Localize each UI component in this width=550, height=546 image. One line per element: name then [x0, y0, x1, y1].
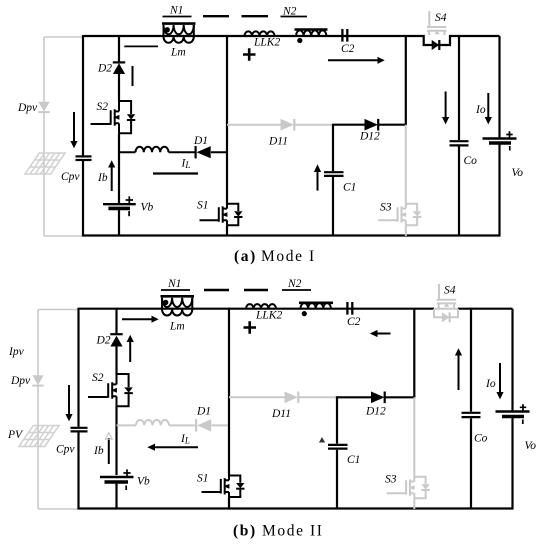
- svg-text:C2: C2: [347, 316, 361, 328]
- svg-text:Mode II: Mode II: [262, 523, 324, 540]
- label N2 with underline: [281, 5, 308, 17]
- svg-text:Co: Co: [474, 433, 488, 445]
- svg-text:C1: C1: [347, 454, 360, 466]
- plus polarity mark: [244, 321, 257, 333]
- arrow down (Cpv current): [65, 385, 72, 421]
- svg-text:Cpv: Cpv: [61, 171, 80, 183]
- transformer core dashes: [204, 289, 268, 291]
- diode Dpv: [32, 375, 43, 385]
- wire gray S3 branch: [413, 397, 415, 509]
- wire gray D11 row: [227, 124, 333, 126]
- svg-text:S1: S1: [197, 200, 209, 212]
- wire Co rail: [470, 308, 472, 509]
- wire battery branch rail: [115, 309, 117, 510]
- plus polarity mark: [243, 48, 256, 60]
- arrow up (Co current): [455, 348, 462, 390]
- diode D11 (gray): [285, 392, 299, 404]
- arrow up Ib (gray head): [105, 433, 112, 464]
- diode D12: [365, 119, 379, 131]
- transformer N2 core bar: [295, 28, 328, 31]
- battery Vo: [496, 404, 530, 424]
- wire bottom rail: [78, 507, 514, 509]
- polarity dot N1: [163, 300, 168, 305]
- capacitor Cpv: [76, 156, 92, 160]
- wire D12 branch rail: [413, 309, 415, 398]
- transistor S2 with body diode: [91, 101, 136, 133]
- capacitor Co: [450, 141, 469, 145]
- svg-text:Vb: Vb: [141, 202, 154, 214]
- transistor S1 with body diode: [200, 204, 243, 225]
- svg-text:(a): (a): [234, 248, 257, 265]
- inductor LLK2: [246, 304, 276, 309]
- svg-text:Cpv: Cpv: [56, 444, 75, 456]
- arrow down (Cpv current): [70, 112, 77, 148]
- svg-text:C2: C2: [341, 43, 355, 55]
- wire black D12 row: [333, 124, 407, 126]
- inductor LLK2: [245, 31, 275, 36]
- svg-text:Dpv: Dpv: [10, 375, 31, 387]
- capacitor C2: [347, 302, 352, 315]
- polarity dot N2: [297, 38, 302, 43]
- line under wire (leakage path, idle): [124, 45, 158, 47]
- svg-text:D12: D12: [359, 131, 380, 143]
- svg-text:Ipv: Ipv: [8, 346, 25, 358]
- svg-text:LLK2: LLK2: [255, 310, 282, 322]
- polarity dot N1: [165, 27, 170, 32]
- svg-text:IL: IL: [180, 433, 190, 446]
- wire right rail: [498, 36, 500, 236]
- svg-text:S4: S4: [435, 12, 447, 24]
- diode D12: [371, 392, 385, 404]
- wire black D12 row: [337, 396, 415, 398]
- caption (b) Mode II: [233, 523, 324, 540]
- transformer core dashes: [203, 15, 268, 17]
- label IL with underline: [153, 158, 198, 174]
- wire inductor row: [119, 151, 227, 153]
- svg-text:D12: D12: [365, 406, 386, 418]
- svg-text:Ib: Ib: [93, 445, 104, 457]
- wire center rail: [226, 35, 228, 237]
- solar panel PV: [25, 153, 65, 174]
- transformer winding N2: [301, 303, 331, 309]
- capacitor Cpv: [71, 428, 88, 432]
- wire gray S4 channel path: [434, 308, 458, 310]
- diode D2: [113, 62, 125, 74]
- svg-text:D2: D2: [97, 63, 112, 75]
- svg-text:Io: Io: [475, 104, 486, 116]
- wire gray PV input loop: [38, 310, 78, 510]
- svg-text:S3: S3: [380, 202, 392, 214]
- arrow left IL: [147, 444, 198, 451]
- svg-text:D1: D1: [196, 406, 211, 418]
- polarity dot N2: [302, 311, 307, 316]
- solar panel PV: [19, 426, 59, 447]
- svg-text:N2: N2: [282, 5, 297, 17]
- wire battery branch rail: [118, 36, 120, 237]
- svg-text:Dpv: Dpv: [17, 102, 38, 114]
- battery Vb: [103, 196, 136, 216]
- label N1 with underline: [163, 5, 192, 17]
- svg-text:S1: S1: [197, 473, 209, 485]
- diode D2: [110, 334, 122, 346]
- wire center rail: [228, 308, 230, 510]
- inductor L: [136, 147, 169, 152]
- caption (a) Mode I: [234, 248, 316, 265]
- transistor S2 with body diode: [88, 374, 133, 406]
- transformer winding N1: [162, 298, 192, 309]
- svg-text:N1: N1: [167, 278, 181, 290]
- svg-text:Lm: Lm: [169, 321, 185, 333]
- transistor S1 with body diode: [202, 476, 245, 498]
- current line beside D2 (mode I idle): [132, 66, 134, 86]
- inductor Lm (magnetizing): [164, 37, 194, 43]
- inductor L (gray): [136, 420, 169, 425]
- arrow up Ib: [108, 160, 115, 191]
- svg-text:PV: PV: [7, 429, 24, 441]
- arrow down Io: [496, 363, 503, 399]
- svg-text:Co: Co: [464, 155, 478, 167]
- transformer N2 core bar: [299, 301, 333, 304]
- wire gray S4 diode dip: [434, 309, 458, 318]
- capacitor Co: [462, 413, 481, 417]
- transformer N1 core bar: [161, 295, 195, 298]
- svg-text:Vb: Vb: [137, 476, 150, 488]
- svg-text:D2: D2: [96, 335, 111, 347]
- transistor S3 (gray, off): [387, 477, 430, 498]
- svg-text:Ib: Ib: [97, 172, 108, 184]
- wire left rail: [77, 308, 79, 510]
- wire gray S3 branch: [405, 125, 407, 236]
- transistor S3 (gray, off): [378, 204, 421, 225]
- svg-text:Io: Io: [485, 378, 496, 390]
- svg-text:Lm: Lm: [170, 47, 186, 59]
- arrow left (C2 current): [370, 330, 391, 337]
- wire bottom rail: [82, 234, 501, 236]
- wire gray inductor row: [117, 424, 230, 426]
- wire black outer top rail: [79, 308, 513, 310]
- svg-text:Vo: Vo: [525, 440, 537, 452]
- wire left rail: [82, 35, 84, 237]
- inductor Lm (magnetizing): [162, 309, 192, 315]
- svg-text:D1: D1: [193, 135, 208, 147]
- diode D1 (gray): [196, 419, 211, 431]
- label N2 with underline: [282, 278, 311, 290]
- arrow down (output branch): [442, 92, 449, 125]
- svg-text:S3: S3: [385, 474, 397, 486]
- wire gray D11 row: [229, 396, 337, 398]
- wire gray PV input loop: [44, 37, 82, 236]
- arrow up (C1 current): [314, 164, 321, 190]
- wire C1 branch: [332, 124, 334, 237]
- svg-text:N1: N1: [169, 5, 183, 17]
- svg-text:C1: C1: [343, 182, 356, 194]
- transformer winding N1: [164, 25, 194, 36]
- label N1 with underline: [161, 278, 190, 290]
- diode S4 body (gray): [442, 312, 450, 322]
- svg-text:S2: S2: [97, 101, 109, 113]
- wire D12 branch rail: [405, 36, 407, 125]
- svg-text:LLK2: LLK2: [253, 37, 280, 49]
- wire right rail: [511, 309, 513, 509]
- wire black outer top rail with S4 dip: [83, 36, 500, 45]
- arrow up (D2 current): [127, 335, 134, 362]
- battery Vb: [100, 469, 134, 490]
- svg-text:D11: D11: [268, 136, 288, 148]
- transistor S4 (gray, off, horizontal): [427, 11, 447, 35]
- capacitor C1: [328, 445, 348, 449]
- svg-text:IL: IL: [181, 158, 191, 171]
- arrow down Io: [485, 93, 492, 124]
- capacitor C2: [342, 29, 347, 42]
- battery Vo: [483, 131, 517, 150]
- wire C1 branch: [336, 396, 338, 509]
- wire Co rail: [458, 35, 460, 237]
- svg-text:N2: N2: [287, 278, 302, 290]
- transformer N1 core bar: [162, 22, 196, 25]
- svg-text:(b): (b): [233, 523, 257, 540]
- marker triangle (C1 current): [319, 437, 325, 443]
- arrow right (C2 current): [328, 57, 385, 64]
- svg-text:S2: S2: [92, 372, 104, 384]
- transformer winding N2: [296, 30, 326, 36]
- diode S4 body (black, conducting): [432, 40, 440, 50]
- capacitor C1: [324, 172, 344, 176]
- transistor S4 (gray, off, horizontal): [437, 284, 457, 308]
- svg-text:D11: D11: [271, 408, 291, 420]
- svg-text:S4: S4: [444, 285, 456, 297]
- arrow right (transformer current): [122, 316, 159, 323]
- svg-text:Mode I: Mode I: [261, 248, 316, 265]
- svg-text:Vo: Vo: [512, 167, 524, 179]
- diode Dpv: [38, 102, 49, 112]
- diode D1: [196, 146, 211, 158]
- diode D11 (gray): [281, 119, 295, 131]
